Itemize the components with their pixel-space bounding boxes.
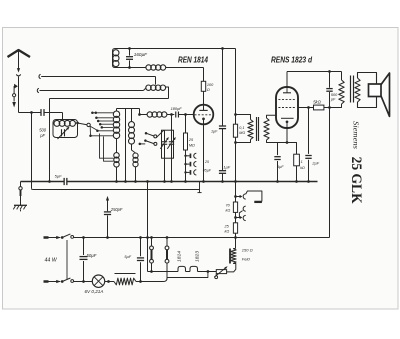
svg-text:2µF: 2µF	[311, 162, 319, 166]
svg-text:MΩ: MΩ	[189, 143, 195, 147]
svg-text:5kΩ: 5kΩ	[313, 99, 321, 104]
svg-text:25: 25	[204, 160, 209, 164]
svg-text:25: 25	[188, 138, 194, 142]
svg-text:kΩ: kΩ	[225, 230, 230, 234]
svg-text:pF: pF	[39, 133, 45, 138]
svg-text:150 Ω: 150 Ω	[242, 248, 253, 253]
svg-text:500: 500	[331, 93, 338, 97]
svg-text:160µF: 160µF	[134, 52, 148, 57]
svg-text:1: 1	[301, 160, 303, 164]
svg-text:1µF: 1µF	[223, 164, 230, 169]
svg-text:RENS 1823 d: RENS 1823 d	[271, 56, 313, 65]
svg-text:kΩ: kΩ	[226, 209, 231, 213]
svg-text:kΩ: kΩ	[300, 166, 305, 170]
svg-text:5µF: 5µF	[277, 165, 284, 169]
svg-text:Feld: Feld	[242, 257, 251, 262]
svg-text:25 GLK: 25 GLK	[348, 157, 364, 205]
svg-text:MΩ: MΩ	[239, 131, 245, 135]
svg-text:Siemens: Siemens	[351, 121, 359, 149]
svg-text:REN 1814: REN 1814	[178, 56, 208, 65]
svg-text:100: 100	[207, 83, 214, 87]
svg-text:5µF: 5µF	[55, 173, 63, 178]
svg-text:500: 500	[39, 128, 47, 133]
svg-text:5µF: 5µF	[124, 254, 131, 259]
svg-text:6V 0,21A: 6V 0,21A	[85, 289, 104, 294]
svg-text:44 W: 44 W	[45, 258, 58, 264]
svg-text:180pF: 180pF	[171, 106, 183, 111]
svg-text:Ω: Ω	[207, 88, 210, 92]
svg-text:1823: 1823	[195, 250, 200, 262]
svg-text:250pF: 250pF	[110, 207, 123, 212]
svg-text:1814: 1814	[177, 250, 182, 262]
svg-text:0,1: 0,1	[239, 126, 244, 130]
svg-text:50µF: 50µF	[87, 253, 97, 258]
svg-text:25: 25	[224, 224, 230, 228]
svg-text:85µF: 85µF	[203, 168, 212, 172]
svg-text:pF: pF	[330, 98, 336, 102]
svg-text:1µF: 1µF	[211, 130, 218, 134]
